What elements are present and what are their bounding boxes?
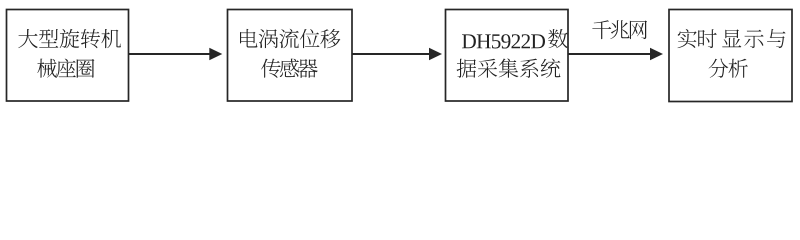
arrow 3 net label: 千兆网 xyxy=(592,20,647,39)
arrow 2: sensor to DH5922D DAQ xyxy=(352,48,442,60)
box 2 text line 1: 电涡流位移 xyxy=(240,29,340,49)
box 4 text line 1: 实时显示与 xyxy=(678,29,786,48)
arrow 3: DAQ to real-time display xyxy=(568,48,663,60)
block box 4: 实时显示与分析 xyxy=(669,10,792,102)
block box 3: DH5922D数据采集系统 xyxy=(446,10,569,102)
box 4 text line 2: 分析 xyxy=(709,59,748,78)
arrow 1: seat ring to eddy-current sensor xyxy=(129,48,223,60)
box 1 text line 1: 大型旋转机 xyxy=(18,29,121,49)
box 1 text line 2: 械座圈 xyxy=(37,59,94,78)
box 3 text line 1: DH5922D数 xyxy=(462,29,568,49)
block box 2: 电涡流位移传感器 xyxy=(228,10,353,102)
block box 1: 大型旋转机械座圈 xyxy=(7,10,129,102)
box 2 text line 2: 传感器 xyxy=(261,59,318,78)
box 3 text line 2: 据采集系统 xyxy=(457,58,561,78)
